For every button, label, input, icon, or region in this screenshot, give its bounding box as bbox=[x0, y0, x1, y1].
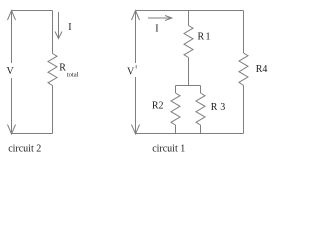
svg-text:R: R bbox=[198, 31, 205, 42]
svg-text:3: 3 bbox=[220, 102, 225, 113]
resistor R3 bbox=[196, 86, 205, 134]
wire right upper (circuit 2) bbox=[52, 11, 54, 54]
resistor R4 zigzag bbox=[239, 53, 248, 86]
svg-text:R: R bbox=[59, 63, 66, 74]
svg-text:V: V bbox=[127, 67, 135, 78]
label Rtotal bbox=[59, 63, 78, 79]
svg-text:V: V bbox=[7, 66, 15, 77]
svg-text:circuit 2: circuit 2 bbox=[8, 144, 41, 155]
svg-text:R: R bbox=[211, 102, 218, 113]
wire middle lower (circuit 1) bbox=[188, 58, 190, 86]
svg-text:I: I bbox=[68, 22, 71, 33]
svg-text:total: total bbox=[67, 71, 79, 78]
wire bottom (circuit 1) bbox=[136, 133, 244, 135]
svg-text:circuit 1: circuit 1 bbox=[152, 143, 185, 154]
current arrow I (circuit 1) bbox=[148, 16, 172, 21]
svg-text:R2: R2 bbox=[152, 101, 164, 112]
svg-text:R4: R4 bbox=[256, 64, 268, 75]
wire top (circuit 1) bbox=[136, 10, 244, 12]
label R3 bbox=[211, 102, 225, 113]
resistor R2 bbox=[171, 86, 180, 134]
resistor Rtotal zigzag bbox=[48, 54, 57, 86]
voltage arrow V (circuit 2) bbox=[8, 11, 16, 135]
label R1 bbox=[198, 31, 211, 42]
current arrow I (circuit 2) bbox=[55, 12, 62, 39]
wire middle upper (circuit 1) bbox=[188, 11, 190, 26]
node bar parallel top bbox=[176, 85, 201, 87]
wire right upper (circuit 1) bbox=[243, 11, 245, 54]
voltage arrow V (circuit 1) bbox=[132, 11, 140, 135]
wire top (circuit 2) bbox=[12, 10, 53, 12]
wire right lower (circuit 1) bbox=[243, 86, 245, 134]
resistor R1 zigzag bbox=[184, 26, 193, 58]
wire bottom (circuit 2) bbox=[12, 133, 53, 135]
svg-text:1: 1 bbox=[206, 31, 211, 42]
wire right lower (circuit 2) bbox=[52, 86, 54, 134]
svg-text:I: I bbox=[155, 24, 158, 35]
